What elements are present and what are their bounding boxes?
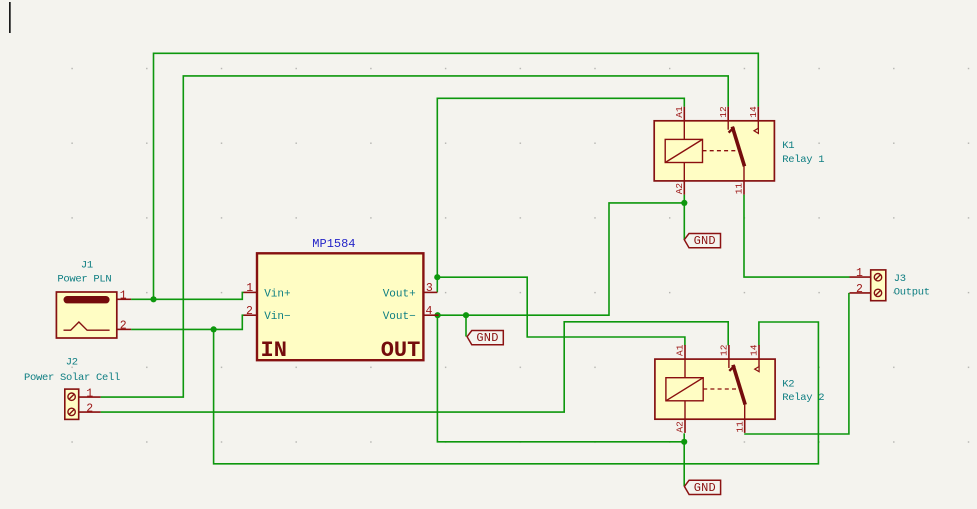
- svg-text:A2: A2: [675, 421, 686, 433]
- svg-text:GND: GND: [476, 331, 498, 345]
- svg-text:11: 11: [734, 421, 745, 433]
- svg-text:Vout−: Vout−: [383, 311, 416, 323]
- svg-text:2: 2: [120, 320, 127, 333]
- svg-text:GND: GND: [694, 481, 716, 495]
- svg-text:Vin−: Vin−: [264, 311, 290, 323]
- svg-text:A1: A1: [675, 344, 686, 356]
- svg-text:J1: J1: [81, 259, 93, 271]
- svg-text:K1: K1: [782, 140, 794, 152]
- svg-text:1: 1: [120, 290, 127, 303]
- svg-text:GND: GND: [694, 234, 716, 248]
- svg-text:Output: Output: [894, 287, 930, 299]
- svg-text:14: 14: [749, 344, 760, 356]
- svg-text:Vin+: Vin+: [264, 288, 290, 300]
- svg-text:IN: IN: [261, 338, 287, 363]
- svg-text:OUT: OUT: [381, 338, 421, 363]
- svg-text:J3: J3: [894, 273, 906, 285]
- svg-text:Relay 2: Relay 2: [782, 392, 824, 404]
- svg-text:2: 2: [86, 402, 93, 415]
- svg-text:J2: J2: [66, 357, 78, 369]
- svg-text:K2: K2: [782, 378, 794, 390]
- svg-text:1: 1: [246, 282, 253, 295]
- svg-text:Power Solar Cell: Power Solar Cell: [24, 372, 120, 384]
- svg-text:Relay 1: Relay 1: [782, 154, 824, 166]
- svg-text:3: 3: [426, 282, 433, 295]
- svg-text:1: 1: [86, 387, 93, 400]
- svg-text:12: 12: [719, 344, 730, 356]
- svg-text:14: 14: [748, 106, 759, 118]
- svg-text:A2: A2: [674, 183, 685, 195]
- svg-text:11: 11: [734, 183, 745, 195]
- svg-text:4: 4: [426, 305, 433, 318]
- svg-text:A1: A1: [674, 106, 685, 118]
- svg-text:1: 1: [856, 267, 863, 280]
- svg-text:Power PLN: Power PLN: [57, 274, 111, 286]
- svg-text:2: 2: [246, 305, 253, 318]
- svg-text:Vout+: Vout+: [383, 288, 416, 300]
- svg-text:2: 2: [856, 283, 863, 296]
- svg-text:12: 12: [718, 106, 729, 118]
- svg-text:MP1584: MP1584: [312, 237, 355, 251]
